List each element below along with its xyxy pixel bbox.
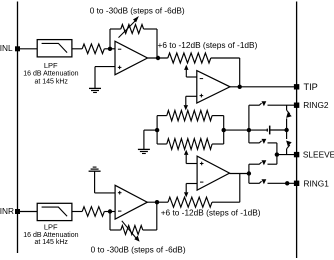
wire SLEEVE lower row right: [268, 155, 277, 165]
svg-text:+6 to -12dB (steps of -1dB): +6 to -12dB (steps of -1dB): [158, 40, 258, 50]
switch S6 (RING1): [259, 179, 266, 184]
wire mid network left bracket: [157, 116, 167, 144]
node RING1 junction: [285, 181, 289, 185]
RING2 terminal: [294, 100, 329, 110]
svg-text:INL: INL: [0, 43, 13, 53]
wire switch column up to RING2 row: [248, 105, 250, 130]
label +6 to -12dB bottom: [161, 207, 261, 217]
label LPF right: [23, 222, 78, 246]
SLEEVE terminal: [294, 150, 334, 160]
wire U3 noninverting input to ground: [95, 192, 116, 194]
wire mid network to switch column: [224, 129, 249, 131]
wire U4 output up to SLEEVE lower row: [249, 164, 260, 173]
op-amp U1: [115, 41, 148, 75]
wire LPF to R1: [72, 48, 82, 50]
svg-text:RING1: RING1: [304, 178, 330, 188]
wire contact to sleeve switch top: [286, 130, 288, 139]
resistor R8 (INR input): [82, 207, 104, 217]
wire SLEEVE to bus: [277, 154, 297, 156]
switch S4 (SLEEVE upper): [259, 139, 266, 144]
wire contact row right: [270, 129, 287, 131]
potentiometer R3 (+6 to -12dB top): [168, 53, 211, 63]
svg-text:TIP: TIP: [304, 82, 318, 92]
resistor R1 (INL input): [82, 44, 104, 54]
wire U4 noninverting input to R6 wiper: [184, 150, 197, 164]
wire U4 output down to RING1 row: [249, 174, 260, 184]
wire INL to LPF: [18, 48, 38, 50]
potentiometer R7 (+6 to -12dB bottom): [168, 197, 212, 207]
variable resistor R2 (0 to -30dB feedback): [121, 25, 144, 34]
wire U3 feedback down: [110, 212, 121, 231]
wire INR to LPF: [18, 211, 38, 213]
label 0 to -30dB bottom: [91, 245, 186, 255]
LPF block (right channel): [37, 203, 72, 220]
wire U1 feedback up: [109, 29, 111, 49]
wire U1 output: [148, 57, 168, 59]
wire U3 output: [147, 201, 168, 203]
wire U2 noninverting input to R5 wiper: [184, 96, 197, 110]
svg-text:LPF: LPF: [44, 222, 58, 231]
TIP terminal: [294, 82, 318, 92]
ground (U1 noninverting input): [89, 67, 101, 93]
node mid network right junction: [222, 128, 226, 132]
ground (mid network): [138, 130, 150, 153]
op-amp U2: [197, 71, 230, 103]
resistor R5 (upper mid): [167, 110, 212, 120]
node U4 output junction: [247, 171, 251, 175]
INR input terminal: [0, 206, 20, 216]
jack contact (normally-closed): [267, 126, 269, 135]
node U3 inverting input junction: [108, 209, 112, 213]
variable resistor R4 (0 to -30dB feedback bottom): [121, 226, 143, 235]
wire RING2 to contact switch top: [286, 105, 288, 110]
R2 wiper arrow: [119, 16, 139, 38]
LPF block (left channel): [37, 40, 72, 57]
wire switch column down to SLEEVE row: [248, 130, 250, 143]
switch S5 (SLEEVE lower): [259, 160, 266, 165]
wire R1 to op-amp U1 inverting input: [104, 48, 115, 50]
op-amp U3: [115, 185, 147, 219]
node U2 output junction: [238, 85, 242, 89]
wire feedback right segment: [144, 29, 157, 58]
wire R7 to U4 output: [212, 174, 240, 203]
label +6 to -12dB top: [158, 40, 258, 50]
svg-text:0 to -30dB (steps of -6dB): 0 to -30dB (steps of -6dB): [91, 245, 186, 255]
svg-text:INR: INR: [0, 206, 14, 216]
wire U2 output to TIP: [230, 86, 297, 88]
wire feedback right segment bottom: [143, 202, 157, 230]
wire U4 output to switches: [230, 173, 249, 175]
wire feedback left segment: [110, 28, 121, 30]
wire R8 to U3 inverting input: [104, 211, 115, 213]
wire R3 to U2 output: [211, 58, 240, 87]
node switch column junction: [247, 128, 251, 132]
svg-text:SLEEVE: SLEEVE: [303, 150, 334, 160]
wire RING2 row right segment: [268, 104, 297, 106]
INL input terminal: [0, 43, 20, 53]
switch S1 (RING2): [259, 101, 266, 106]
svg-text:at 145 kHz: at 145 kHz: [34, 78, 68, 85]
node contact row junction: [284, 128, 288, 132]
svg-text:0 to -30dB (steps of -6dB): 0 to -30dB (steps of -6dB): [90, 5, 185, 15]
wire SLEEVE upper row right: [268, 143, 277, 155]
svg-text:LPF: LPF: [44, 61, 58, 70]
label LPF left: [23, 61, 78, 86]
op-amp U4: [197, 156, 229, 190]
wire mid network right bracket: [212, 116, 224, 144]
wire SLEEVE upper row left: [249, 142, 260, 144]
R4 wiper arrow: [122, 221, 140, 242]
wire contact row left: [249, 129, 267, 131]
node U3 output junction: [155, 200, 159, 204]
node mid network left junction: [155, 128, 159, 132]
wire U1 noninverting input to ground: [95, 66, 115, 68]
wire RING1 row right: [268, 182, 297, 184]
wire sleeve switch bottom: [286, 149, 288, 155]
svg-text:16 dB Attenuation: 16 dB Attenuation: [23, 232, 78, 239]
resistor R6 (lower mid): [167, 139, 212, 150]
RING1 terminal: [294, 178, 329, 188]
wire mid network to ground: [144, 129, 157, 131]
svg-text:at 145 kHz: at 145 kHz: [34, 239, 68, 246]
wire U4 inverting input to R7 wiper: [184, 184, 197, 198]
switch S3 (SLEEVE sense): [286, 141, 292, 149]
ground (U3 noninverting input): [89, 167, 101, 193]
right jack bus wire: [296, 2, 298, 259]
wire LPF to R8: [72, 211, 82, 213]
node U1 output junction: [156, 56, 160, 60]
R3 wiper arrow to U2 inverting input: [184, 65, 197, 77]
left input bus wire: [17, 2, 19, 254]
node op-amp U1 inverting input junction: [108, 47, 112, 51]
svg-text:16 dB Attenuation: 16 dB Attenuation: [23, 70, 78, 77]
label 0 to -30dB top: [90, 5, 185, 15]
svg-text:+6 to -12dB (steps of -1dB): +6 to -12dB (steps of -1dB): [161, 207, 261, 217]
wire contact switch bottom: [286, 118, 288, 130]
wire RING2 row left segment: [249, 104, 260, 106]
node SLEEVE junction: [275, 152, 279, 156]
switch S2 (RING2 sense): [286, 110, 292, 118]
svg-text:RING2: RING2: [303, 100, 329, 110]
